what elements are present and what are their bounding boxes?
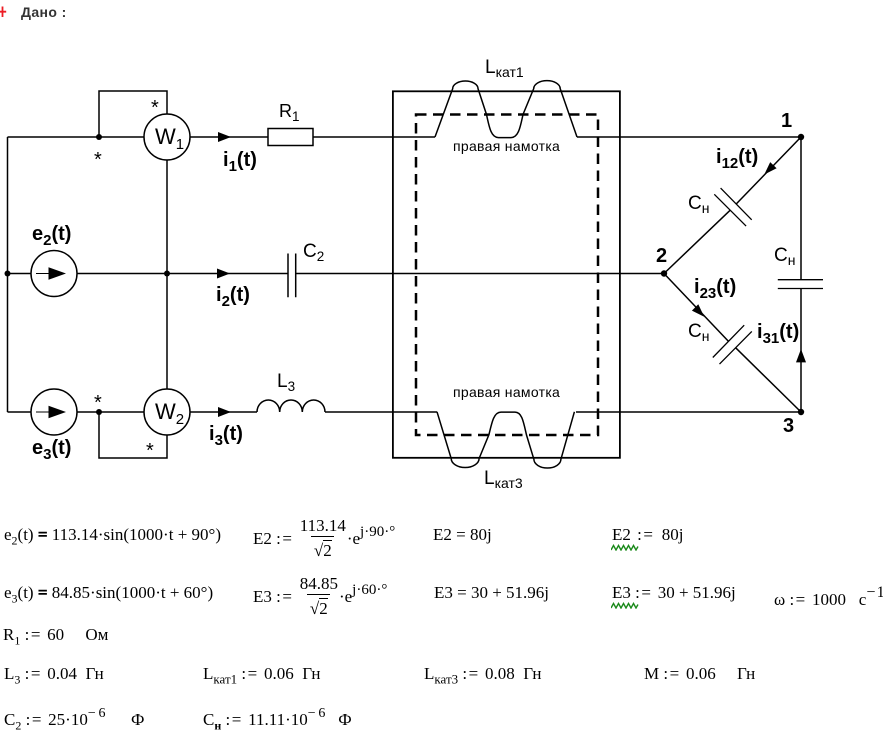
label i23(t) xyxy=(694,276,736,302)
label i2(t) xyxy=(216,284,250,310)
node 2 xyxy=(661,270,667,276)
wire row3 e3-to-W2 xyxy=(77,411,144,413)
label e3(t) xyxy=(32,437,71,463)
wire branch 2-3 upper xyxy=(664,274,729,342)
arrow i3 xyxy=(218,407,231,417)
arrow i2 xyxy=(217,269,230,279)
wire left bus xyxy=(7,137,9,412)
wire row2 C2-to-node2 xyxy=(296,273,664,275)
wire row1 winding-to-node1 xyxy=(577,136,801,138)
value label omega xyxy=(774,583,883,609)
node junction row3 xyxy=(96,409,102,415)
value label C2 xyxy=(4,704,144,735)
label node 2 xyxy=(656,245,667,268)
wire row2 bus-to-e2 xyxy=(8,273,32,275)
arrow i31 xyxy=(796,349,806,362)
coil Lkat3 winding xyxy=(437,412,574,468)
capacitor C12 plates xyxy=(714,188,751,226)
spellcheck squiggle E2 xyxy=(611,544,641,551)
value label M xyxy=(644,664,755,683)
wattmeter W1 voltage-coil bracket xyxy=(99,91,167,137)
label i3(t) xyxy=(209,423,243,449)
wire row1 left segment xyxy=(8,136,145,138)
wattmeter W2 xyxy=(144,389,190,435)
header text Dano xyxy=(21,4,67,20)
value label R1 xyxy=(3,625,108,650)
source e2 arrow xyxy=(36,268,65,279)
node 3 xyxy=(798,409,804,415)
label node 3 xyxy=(783,415,794,438)
spellcheck squiggle E3 xyxy=(611,602,641,609)
source e2 xyxy=(31,251,77,297)
resistor R1 xyxy=(268,129,313,146)
value label E3 assignment xyxy=(612,583,736,602)
label star W2 top xyxy=(94,392,102,415)
node junction bus row2 xyxy=(5,271,11,277)
label winding top xyxy=(453,138,560,154)
value label L3 xyxy=(4,664,104,689)
label Lkat3 xyxy=(484,468,523,491)
arrow i23 xyxy=(692,304,704,316)
label winding bottom xyxy=(453,384,560,400)
value label Lkat1 xyxy=(203,664,320,688)
source e3 arrow xyxy=(36,407,65,418)
wire row3 winding-to-node3 xyxy=(576,411,801,413)
source e3 xyxy=(31,389,77,435)
wire branch 3-1 upper xyxy=(800,137,802,280)
label star W2 bottom xyxy=(146,440,154,463)
label Cn 12 xyxy=(688,193,709,216)
wire row3 L3-to-winding xyxy=(325,411,437,413)
wire branch 1-2 lower xyxy=(664,210,730,273)
label R1 xyxy=(279,101,300,124)
label e2(t) xyxy=(32,223,71,249)
label W2 xyxy=(155,399,184,428)
label i1(t) xyxy=(223,149,257,175)
inductor L3 xyxy=(257,400,325,412)
transformer dashed box xyxy=(416,115,598,436)
label star W1 top xyxy=(151,97,159,120)
value label e2(t) definition xyxy=(4,525,221,550)
label L3 xyxy=(277,371,295,394)
wire row1 W1-to-R1 xyxy=(190,136,268,138)
value label E2 assignment xyxy=(612,525,683,544)
wire branch 1-2 upper xyxy=(736,137,801,204)
wire W1-W2 vertical xyxy=(166,160,168,389)
value label E2 phasor definition xyxy=(253,519,395,561)
capacitor C2 plates xyxy=(288,254,296,298)
wire row1 R1-to-winding xyxy=(313,136,435,138)
node 1 xyxy=(798,134,804,140)
wire row2 e2-to-C2 xyxy=(77,273,288,275)
label i31(t) xyxy=(757,321,799,347)
label star W1 bottom xyxy=(94,149,102,172)
label W1 xyxy=(155,124,184,153)
value label Lkat3 xyxy=(424,664,541,688)
value label Cn xyxy=(203,704,352,735)
arrow i1 xyxy=(218,132,231,142)
label Lkat1 xyxy=(485,57,524,80)
node junction mid row2 xyxy=(164,271,170,277)
value label E3 result xyxy=(434,583,549,602)
node junction row1 xyxy=(96,134,102,140)
wattmeter W2 voltage-coil bracket xyxy=(99,412,167,458)
value label E2 result xyxy=(433,525,492,544)
value label E3 phasor definition xyxy=(253,577,387,619)
label Cn 23 xyxy=(688,321,709,344)
transformer core box xyxy=(393,91,620,458)
capacitor C23 plates xyxy=(713,325,752,364)
label node 1 xyxy=(781,110,792,133)
region anchor red plus xyxy=(0,7,6,18)
label C2 xyxy=(303,241,324,264)
value label e3(t) definition xyxy=(4,583,213,608)
wire branch 2-3 lower xyxy=(736,348,801,412)
wire branch 3-1 lower xyxy=(800,289,802,413)
wattmeter W1 xyxy=(144,114,190,160)
coil Lkat1 winding xyxy=(435,81,577,138)
label i12(t) xyxy=(716,146,758,172)
label Cn 31 xyxy=(774,245,795,268)
wire row3 bus-to-e3 xyxy=(8,411,32,413)
capacitor C31 plates xyxy=(778,280,823,289)
wire row3 W2-to-L3 xyxy=(190,411,257,413)
arrow i12 xyxy=(764,162,776,174)
